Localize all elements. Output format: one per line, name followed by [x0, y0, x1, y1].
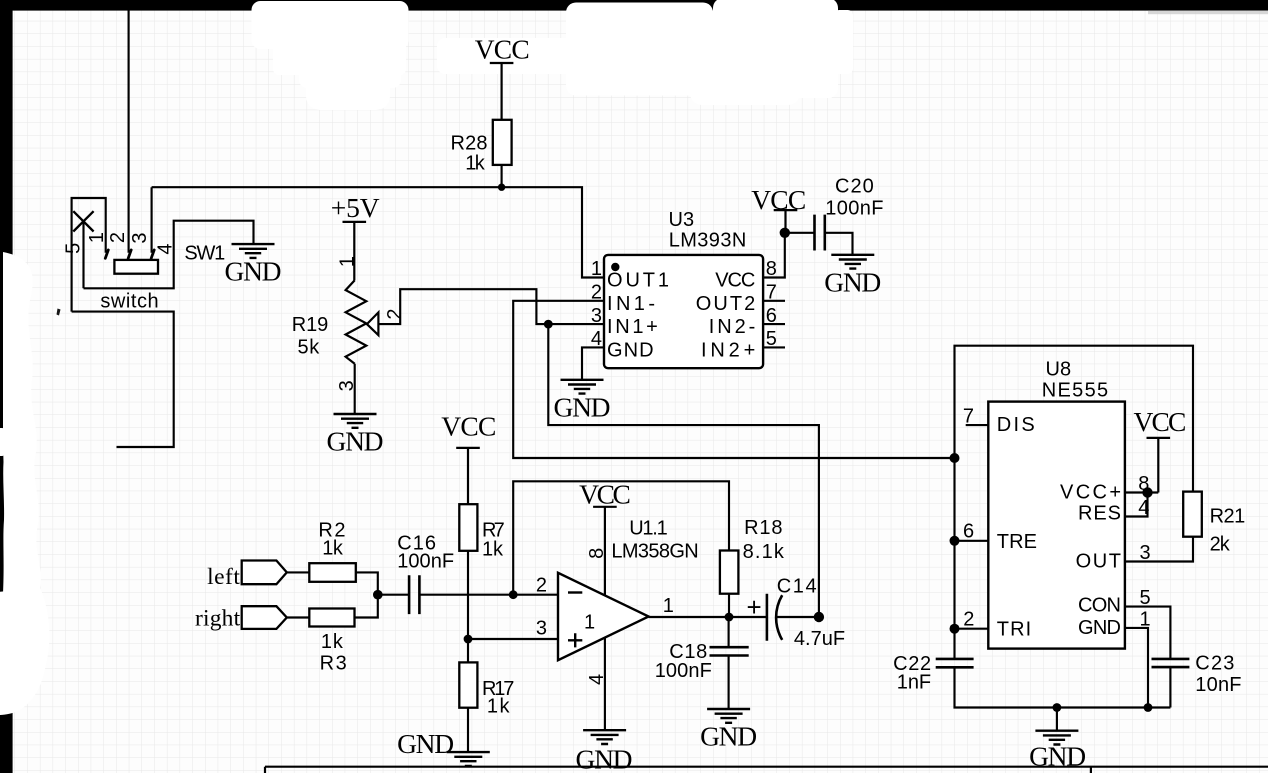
svg-text:4: 4 [155, 243, 177, 254]
svg-text:2: 2 [536, 575, 547, 597]
potentiometer R19 zigzag [346, 280, 367, 364]
svg-text:1nF: 1nF [897, 671, 931, 693]
svg-text:2: 2 [963, 609, 974, 631]
timer U8 NE555 box [988, 402, 1125, 649]
wire U3 pin4 to ground [582, 347, 604, 379]
svg-text:LM358GN: LM358GN [611, 540, 698, 562]
svg-text:R28: R28 [451, 133, 488, 155]
svg-text:100nF: 100nF [655, 660, 712, 682]
SW1 pin 3 arrow [151, 250, 154, 258]
svg-text:VCC: VCC [475, 34, 530, 65]
svg-text:OUT: OUT [1076, 551, 1121, 573]
svg-text:1: 1 [336, 256, 358, 267]
resistor R21 body [1183, 492, 1202, 537]
svg-text:LM393N: LM393N [669, 230, 747, 252]
svg-text:RES: RES [1078, 503, 1121, 525]
svg-text:CON: CON [1078, 594, 1121, 616]
wire VCC node to C20 [785, 232, 814, 234]
svg-text:SW1: SW1 [184, 243, 225, 265]
wire R2 to node [356, 572, 378, 594]
wire R28 to node [501, 165, 503, 187]
svg-text:3: 3 [536, 618, 547, 640]
svg-text:C14: C14 [777, 575, 817, 597]
junction R28 node [498, 184, 505, 191]
svg-text:1: 1 [591, 258, 602, 280]
switch SW1 body [114, 260, 158, 274]
junction pin1 bottom [1144, 703, 1153, 712]
svg-text:VCC: VCC [1134, 406, 1187, 437]
SW1 pin 2 arrow [128, 250, 131, 258]
svg-text:VCC: VCC [579, 478, 631, 509]
ground at C18 [707, 709, 750, 723]
SW1 pin 3 wire [151, 187, 153, 253]
junction pin8/pin4 [1142, 487, 1152, 497]
svg-text:1k: 1k [487, 696, 511, 718]
svg-text:1: 1 [86, 232, 108, 243]
wire R21 to OUT [1125, 537, 1193, 562]
svg-text:1: 1 [584, 611, 595, 633]
wire R7 to R17 [467, 551, 469, 663]
capacitor C22 plates [936, 659, 974, 667]
wire R19 to ground [354, 364, 356, 414]
wire U8 CON to C23 [1125, 607, 1171, 659]
wire switch pin3 to R28 node to U3 [152, 187, 604, 277]
svg-text:1k: 1k [482, 539, 504, 561]
svg-text:6: 6 [963, 521, 974, 543]
capacitor C14 plates [767, 594, 782, 641]
junction R2/R3/C16 [373, 590, 383, 600]
svg-text:2: 2 [384, 309, 406, 320]
power VCC at U3 [774, 210, 798, 233]
junction VCC/C20 [780, 228, 790, 238]
svg-text:OUT2: OUT2 [696, 293, 756, 315]
wire U3 pin8 to VCC node [763, 233, 785, 278]
svg-text:4.7uF: 4.7uF [794, 628, 845, 650]
wire output node to C18 [728, 617, 730, 647]
wire 555 top rail [955, 346, 1194, 659]
junction TRE rail [950, 536, 960, 546]
svg-text:OUT1: OUT1 [607, 270, 669, 292]
wire node to op-amp plus [468, 638, 558, 640]
svg-text:R19: R19 [292, 314, 329, 336]
power VCC at op-amp [593, 507, 617, 595]
junction feedback/minus [509, 590, 518, 599]
junction C14 output [814, 612, 824, 622]
svg-text:7: 7 [963, 406, 974, 428]
svg-text:1: 1 [663, 595, 674, 617]
svg-text:VCC: VCC [715, 270, 755, 292]
svg-text:GND: GND [397, 728, 454, 759]
svg-text:10nF: 10nF [1195, 674, 1241, 696]
wire C20 to ground [825, 233, 853, 255]
svg-text:TRE: TRE [997, 531, 1037, 553]
resistor R7 body [459, 504, 477, 551]
svg-text:+: + [747, 592, 762, 622]
svg-text:2k: 2k [1210, 534, 1231, 556]
op-amp U3 LM393N box [604, 255, 763, 368]
wire U8 pin4 RES jog [1125, 493, 1148, 517]
ground at U3 pin4 [561, 380, 604, 394]
stray mark [57, 309, 61, 316]
svg-text:GND: GND [225, 256, 282, 287]
svg-text:right: right [195, 606, 241, 632]
wire C18 to ground [728, 656, 730, 710]
svg-text:100nF: 100nF [397, 551, 454, 573]
wire SW1 bottom jog [84, 221, 254, 289]
svg-text:2: 2 [107, 232, 129, 243]
connector left [242, 561, 287, 585]
svg-text:1k: 1k [465, 152, 486, 174]
resistor R17 body [459, 662, 477, 707]
wire C14 to node [776, 616, 819, 618]
wire to 555 ground [1056, 708, 1058, 731]
power VCC at R28 [490, 63, 514, 120]
svg-text:1k: 1k [322, 538, 344, 560]
resistor R28 body [493, 120, 512, 165]
resistor R2 body [309, 563, 356, 582]
wire pin3 node down and right [548, 324, 819, 617]
op-amp plus symbol [568, 633, 582, 647]
svg-text:R18: R18 [744, 517, 782, 539]
svg-text:TRI: TRI [997, 619, 1031, 641]
wire C16 to op-amp minus [419, 594, 558, 596]
op-amp minus symbol [568, 591, 582, 593]
wire U3 pin3 stub [548, 323, 604, 325]
wire left to R2 [287, 571, 310, 573]
svg-text:GND: GND [327, 426, 384, 457]
ground at R17 [447, 752, 490, 766]
wire U8 pin8 stub [1125, 491, 1158, 493]
U3 unconnected stubs pins 7,6,5 [763, 301, 785, 348]
svg-text:100nF: 100nF [825, 198, 883, 220]
svg-text:3: 3 [129, 232, 151, 243]
wire from top to SW1 pin 2 [128, 9, 130, 253]
svg-text:GND: GND [700, 721, 757, 752]
svg-text:8.1k: 8.1k [743, 541, 785, 563]
svg-text:NE555: NE555 [1042, 379, 1108, 401]
svg-text:C20: C20 [835, 175, 874, 197]
power VCC at U8 [1147, 438, 1171, 493]
svg-text:5: 5 [63, 243, 85, 254]
SW1 pin 5 cross (X) [73, 211, 93, 231]
wire R17 to ground [467, 708, 469, 752]
wire node to C16 [378, 594, 409, 596]
ground at op-amp [583, 730, 626, 744]
svg-text:1k: 1k [321, 631, 344, 653]
bottom sheet outline [265, 767, 1268, 773]
left border strip [0, 0, 13, 773]
wire SW1 pin5 down [82, 221, 84, 288]
svg-text:GND: GND [1078, 617, 1121, 639]
capacitor C18 plates [710, 647, 749, 655]
svg-text:5k: 5k [298, 337, 321, 359]
SW1 lower enclosure [72, 312, 174, 447]
U3 pin1 indicator dot [611, 263, 619, 271]
capacitor C20 plates [815, 215, 825, 251]
ground at U8 [1035, 731, 1078, 745]
junction U3 pin3 [544, 320, 553, 329]
wire R19 wiper [378, 289, 548, 324]
svg-text:GND: GND [554, 391, 611, 422]
wire C23 to bottom rail [1169, 667, 1171, 707]
svg-text:8: 8 [586, 548, 608, 559]
wire op-amp pin4 to ground [604, 638, 606, 730]
feedback wire to R18 [513, 481, 729, 594]
svg-text:VCC: VCC [441, 411, 496, 442]
resistor R3 body [309, 609, 354, 627]
R19 wiper arrow [367, 312, 379, 335]
wire R18 to output node [728, 594, 730, 617]
U8 pin stubs left [955, 425, 989, 629]
svg-text:U3: U3 [669, 209, 695, 231]
svg-text:switch: switch [100, 290, 158, 312]
svg-text:GND: GND [607, 339, 654, 361]
SW1 enclosure left/top [72, 198, 106, 312]
svg-text:U1.1: U1.1 [629, 518, 668, 540]
svg-text:GND: GND [576, 744, 633, 773]
junction TRI rail [950, 624, 960, 634]
junction R7/R17/plus [464, 635, 473, 644]
top border band [0, 0, 1268, 11]
capacitor C16 plates [409, 575, 419, 614]
svg-text:C23: C23 [1195, 653, 1234, 675]
wire U3 pin2 net [513, 301, 954, 458]
ground at C20 [831, 255, 874, 269]
wire right to R3 [287, 616, 310, 618]
wire op-amp output [649, 616, 767, 618]
wire R3 to node [355, 595, 378, 618]
svg-text:+5V: +5V [331, 192, 380, 223]
svg-text:left: left [207, 564, 240, 590]
resistor R18 body [720, 551, 739, 594]
svg-text:IN1+: IN1+ [607, 316, 658, 338]
svg-text:DIS: DIS [997, 414, 1035, 436]
junction bottom ground [1053, 703, 1062, 712]
svg-text:GND: GND [824, 266, 881, 297]
SW1 pin 1 arrow [105, 250, 108, 258]
wire U8 pin1 GND down [1125, 628, 1148, 708]
capacitor C23 plates [1152, 659, 1190, 667]
power +5V at R19 [343, 222, 367, 280]
svg-text:VCC: VCC [751, 184, 806, 215]
junction output/R18/C18 [725, 613, 734, 622]
svg-text:R21: R21 [1210, 505, 1246, 527]
op-amp U1.1 triangle [558, 573, 649, 660]
junction DIS rail [950, 453, 960, 463]
ground at SW1 [232, 244, 275, 258]
power VCC at R7 [456, 448, 480, 504]
svg-text:R3: R3 [320, 653, 347, 675]
connector right [242, 606, 287, 629]
svg-text:U8: U8 [1046, 358, 1072, 380]
ground at R19 [334, 414, 377, 428]
wire C22 to bottom rail [955, 667, 1171, 707]
